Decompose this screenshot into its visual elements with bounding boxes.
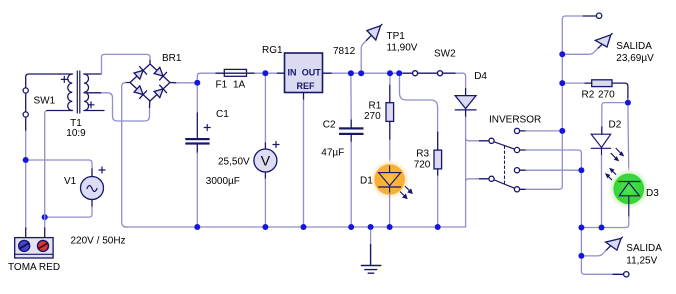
node E junction (C2 tap): [348, 70, 354, 76]
svg-text:25,50V: 25,50V: [218, 156, 250, 167]
svg-text:OUT: OUT: [302, 68, 322, 78]
capacitor C1: [196, 113, 198, 138]
svg-text:D4: D4: [474, 71, 487, 82]
wire node L down to D3: [627, 106, 630, 174]
wire R1 to D1: [389, 121, 391, 140]
wire V1 bottom to node B: [91, 200, 93, 208]
node D junction: [262, 70, 268, 76]
svg-text:1A: 1A: [233, 79, 246, 90]
LED D3: [606, 169, 640, 217]
wire T1 primary bottom tap: [47, 110, 72, 112]
wire voltmeter bottom to rail: [264, 172, 266, 179]
source V1: [81, 167, 106, 200]
transformer T1: [61, 71, 104, 113]
svg-text:F1: F1: [216, 79, 228, 90]
svg-text:REF: REF: [297, 81, 316, 91]
wire mains top (SW1 to T1 primary top): [26, 74, 73, 88]
svg-text:11,25V: 11,25V: [626, 255, 657, 266]
node H junction (R3 feed tap): [396, 70, 402, 76]
switch SW2: [403, 71, 456, 76]
wire T1 secondary top to BR1 top: [102, 54, 151, 74]
wire node M to terminal bottom: [581, 259, 613, 274]
switch SW1: [23, 88, 28, 131]
LED D2: [591, 134, 623, 160]
diode D4: [455, 96, 476, 117]
node D2-rail junction: [599, 225, 605, 231]
wire RG1 OUT to 12V rail: [323, 72, 333, 74]
connector TOMA RED: [15, 238, 53, 258]
wire D1 to rail: [389, 193, 391, 227]
capacitor C2: [339, 127, 364, 135]
svg-text:220V / 50Hz: 220V / 50Hz: [71, 236, 126, 247]
wire node J2 to R2: [566, 82, 585, 84]
node B junction: [42, 214, 48, 220]
wire node L to D2: [602, 103, 625, 127]
wire C1 bottom to rail: [196, 145, 198, 153]
svg-text:C2: C2: [323, 120, 336, 131]
node C2-rail junction: [348, 224, 354, 230]
node J1 junction (SALIDA 1 tap): [559, 51, 565, 57]
wire T1 primary bottom to TOMA RED red terminal: [45, 111, 48, 229]
wire RG1 REF to rail: [303, 93, 305, 101]
svg-text:INVERSOR: INVERSOR: [489, 115, 541, 126]
svg-text:R1: R1: [369, 101, 382, 112]
node R3-rail junction: [435, 224, 441, 230]
wire SW1 to node A: [25, 131, 27, 157]
svg-text:11,90V: 11,90V: [387, 43, 418, 54]
wire R2 to node L: [612, 83, 628, 99]
node L junction: [625, 100, 631, 106]
node J junction (contact1): [559, 128, 565, 134]
svg-text:3000µF: 3000µF: [206, 176, 240, 187]
wire node C down to C1: [196, 86, 198, 113]
node ground-rail junction: [368, 224, 374, 230]
test point SALIDA 1: [566, 48, 599, 54]
wire contact1 to node J: [526, 130, 559, 132]
wire D4 down to rail (end of rail): [465, 117, 467, 227]
test point SALIDA 2: [585, 250, 607, 256]
resistor R3: [434, 150, 442, 169]
svg-text:7812: 7812: [333, 46, 356, 57]
vertical bus (salida+): [562, 16, 583, 186]
node K junction: [578, 167, 584, 173]
terminal bottom: [613, 273, 624, 275]
node REF-rail junction: [301, 224, 307, 230]
svg-text:R2: R2: [582, 90, 595, 101]
wire node H to R3: [400, 77, 438, 133]
voltmeter V: [254, 142, 279, 173]
svg-text:TP1: TP1: [387, 31, 406, 42]
svg-text:D2: D2: [609, 120, 622, 131]
wire node G to R1: [389, 77, 391, 86]
svg-text:270: 270: [364, 111, 381, 122]
svg-text:IN: IN: [288, 68, 297, 78]
node C junction: [194, 80, 200, 86]
wire SW2 to D4: [456, 73, 466, 88]
wire node K down: [580, 174, 582, 253]
terminal top: [583, 15, 596, 17]
node G junction (R1 tap): [387, 70, 393, 76]
svg-text:720: 720: [414, 160, 431, 171]
node M junction (SALIDA 2 tap): [578, 253, 584, 259]
wire node A to TOMA RED blue terminal: [25, 163, 27, 228]
svg-text:SALIDA: SALIDA: [616, 41, 652, 52]
node voltmeter-rail junction: [262, 224, 268, 230]
svg-text:TOMA RED: TOMA RED: [8, 262, 60, 273]
LED D1 glow: [369, 159, 411, 201]
ground: [370, 230, 372, 244]
fuse F1: [216, 69, 255, 76]
svg-text:V: V: [261, 153, 271, 169]
wire contact2 to node K: [526, 150, 581, 167]
test point TP1: [361, 40, 366, 70]
svg-text:10:9: 10:9: [66, 128, 86, 139]
wire fuse to node D: [255, 72, 262, 74]
svg-text:BR1: BR1: [162, 53, 182, 64]
svg-text:D1: D1: [360, 176, 373, 187]
regulator RG1: [285, 53, 323, 93]
node J2 junction (R2 tap): [559, 80, 565, 86]
node K2 junction (rail): [578, 225, 584, 231]
svg-text:V1: V1: [64, 176, 77, 187]
node F junction (TP1 tap): [358, 70, 364, 76]
wire node C up to fuse rail: [197, 73, 216, 79]
wire contact4 up to vertical bus: [526, 186, 562, 189]
svg-text:47µF: 47µF: [321, 147, 344, 158]
wire contact3 to node K: [526, 169, 578, 171]
bottom-right rail: [581, 227, 625, 229]
wire R3 to rail: [437, 169, 439, 176]
wire BR1 left (negative) to bottom rail: [125, 82, 130, 84]
svg-text:R3: R3: [416, 149, 429, 160]
wire T1 secondary mid to BR1 bottom: [102, 93, 150, 121]
svg-text:SALIDA: SALIDA: [626, 243, 662, 254]
bridge rectifier BR1: [130, 64, 170, 101]
switch INVERSOR (DPDT): [489, 128, 526, 192]
wire rail to INVERSOR pole 2: [466, 179, 480, 182]
wire D3 to bottom-right rail: [624, 217, 629, 228]
resistor R2: [592, 80, 612, 87]
node A junction: [23, 157, 29, 163]
svg-text:23,69µV: 23,69µV: [616, 53, 654, 64]
svg-text:SW1: SW1: [34, 96, 56, 107]
node D1-rail junction: [387, 224, 393, 230]
resistor R1: [386, 103, 394, 122]
wire BR1 right (positive) to node C: [170, 82, 177, 84]
svg-text:SW2: SW2: [434, 49, 456, 60]
wire node A to V1 top: [29, 160, 92, 169]
wire D2 to bottom-right rail: [601, 156, 603, 228]
svg-text:RG1: RG1: [262, 45, 283, 56]
wire D4 branch to INVERSOR pole 1: [466, 138, 480, 141]
bottom rail (0V bus): [124, 226, 466, 228]
wire node E down to C2: [350, 77, 352, 121]
svg-text:D3: D3: [646, 188, 659, 199]
LED D3 glow: [607, 167, 651, 211]
wire node D down to voltmeter: [264, 77, 266, 144]
node C1-rail junction: [194, 224, 200, 230]
wire node D to RG1 IN: [269, 72, 278, 74]
wire C2 bottom to rail: [350, 135, 352, 142]
svg-text:270: 270: [598, 90, 615, 101]
svg-text:C1: C1: [216, 109, 229, 120]
LED D1: [379, 166, 412, 198]
